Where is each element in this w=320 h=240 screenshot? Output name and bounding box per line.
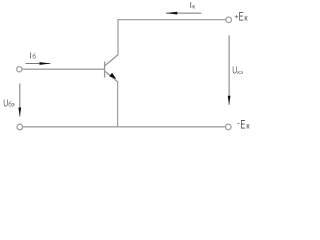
svg-text:к: к: [244, 13, 248, 22]
current arrow Ik: [166, 12, 202, 15]
svg-text:к: к: [192, 3, 195, 10]
terminal input left-top: [17, 67, 22, 72]
terminal -Ek: [226, 124, 232, 130]
svg-text:б: б: [32, 55, 36, 61]
transistor VT1: [105, 55, 118, 82]
current arrow Ib: [26, 62, 51, 65]
terminal left-bottom: [17, 124, 23, 130]
wire bottom: [23, 126, 226, 128]
voltage arrow Uke: [228, 35, 231, 105]
label Uke: [232, 64, 243, 76]
label +Ek: [234, 11, 248, 24]
svg-text:-: -: [237, 119, 240, 128]
svg-text:E: E: [239, 11, 244, 24]
svg-text:к: к: [246, 121, 250, 130]
label -Ek: [237, 119, 250, 132]
svg-text:бэ: бэ: [8, 102, 15, 109]
voltage arrow Ube: [18, 84, 21, 117]
wire emitter down: [117, 82, 119, 127]
wire base: [22, 68, 105, 70]
svg-text:E: E: [240, 119, 245, 132]
wire collector to +Ek: [118, 20, 226, 55]
terminal +Ek: [226, 17, 232, 23]
label Ib: [29, 51, 36, 60]
label Ik: [190, 1, 196, 10]
label Ube: [3, 97, 15, 109]
svg-text:кэ: кэ: [237, 70, 243, 76]
svg-text:I: I: [29, 51, 31, 60]
transistor emitter arrowhead: [109, 73, 116, 79]
